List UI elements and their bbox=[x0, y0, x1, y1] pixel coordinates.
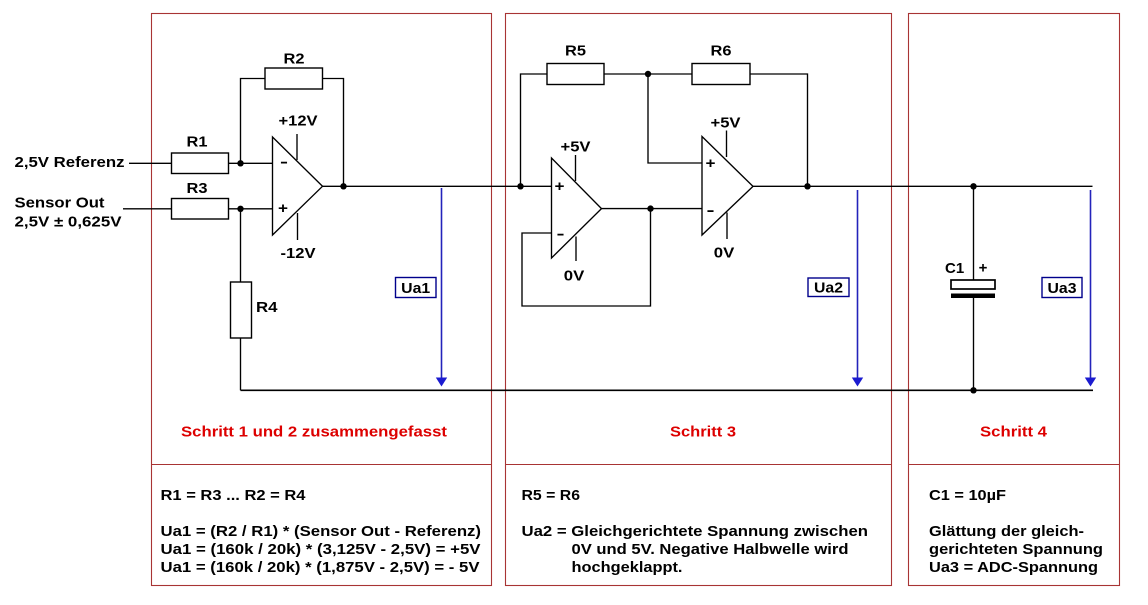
formula box 3 text bbox=[929, 487, 1103, 576]
frame box 3 (Schritt 4) bbox=[909, 14, 1120, 586]
wire R3 junction down to R4 bbox=[240, 209, 242, 282]
power +5V U3 bbox=[711, 115, 741, 158]
svg-text:R1: R1 bbox=[187, 134, 208, 151]
svg-text:R6: R6 bbox=[711, 43, 732, 60]
svg-text:+12V: +12V bbox=[279, 113, 318, 130]
node arrow Ua3 bbox=[1042, 190, 1096, 387]
svg-text:2,5V ± 0,625V: 2,5V ± 0,625V bbox=[15, 214, 122, 231]
wire R5 left lead bbox=[521, 74, 548, 186]
frame box 2 (Schritt 3) bbox=[506, 14, 892, 586]
wire input referenz to R1 bbox=[129, 162, 172, 164]
svg-text:Ua2 = Gleichgerichtete Spannun: Ua2 = Gleichgerichtete Spannung zwischen bbox=[522, 523, 869, 540]
svg-text:+5V: +5V bbox=[711, 115, 741, 132]
node junction R5 tap bbox=[517, 183, 523, 189]
node arrow Ua2 bbox=[808, 190, 863, 387]
wire U1 output to U2 input bbox=[323, 185, 552, 187]
resistor R5 bbox=[547, 43, 604, 85]
power 0V U3 bbox=[714, 213, 735, 262]
svg-text:R1 = R3 ... R2 = R4: R1 = R3 ... R2 = R4 bbox=[161, 487, 307, 504]
node junction R3/R4 bbox=[237, 206, 243, 212]
power -12V U1 bbox=[281, 213, 316, 262]
svg-text:R2: R2 bbox=[284, 51, 305, 68]
wire C1 top lead bbox=[973, 186, 975, 280]
formula box 2 text bbox=[522, 487, 869, 576]
power +5V U2 bbox=[561, 139, 591, 182]
resistor R4 bbox=[231, 282, 279, 338]
svg-text:-: - bbox=[557, 226, 565, 243]
svg-text:Ua1: Ua1 bbox=[401, 280, 430, 297]
node U3 output junction bbox=[804, 183, 810, 189]
wire R5 to R6 bbox=[604, 73, 692, 75]
node C1 top junction bbox=[970, 183, 976, 189]
wire R2 right down to output node bbox=[323, 79, 344, 187]
svg-text:hochgeklappt.: hochgeklappt. bbox=[572, 559, 683, 576]
svg-text:+: + bbox=[979, 260, 988, 277]
svg-text:R4: R4 bbox=[256, 299, 278, 316]
wire U2 feedback loop bbox=[522, 209, 651, 306]
svg-text:Sensor Out: Sensor Out bbox=[15, 195, 105, 212]
svg-text:+: + bbox=[555, 178, 565, 195]
svg-text:0V: 0V bbox=[714, 245, 735, 262]
wire ground rail bbox=[241, 389, 1094, 391]
wire R5/R6 junction down to U3 non-inverting input bbox=[648, 74, 702, 163]
svg-text:Ua1 = (R2 / R1) * (Sensor Out: Ua1 = (R2 / R1) * (Sensor Out - Referenz… bbox=[161, 523, 482, 540]
wire R1 to op-amp inverting input bbox=[229, 162, 273, 164]
svg-text:Glättung der gleich-: Glättung der gleich- bbox=[929, 523, 1084, 540]
node junction R5/R6 bbox=[645, 71, 651, 77]
svg-text:C1 = 10µF: C1 = 10µF bbox=[929, 487, 1006, 504]
svg-text:-: - bbox=[280, 154, 288, 171]
node C1 bottom junction bbox=[970, 387, 976, 393]
svg-text:R5: R5 bbox=[565, 43, 586, 60]
capacitor C1 bbox=[945, 260, 995, 299]
wire U3 output to C1 and Ua3 bbox=[753, 185, 1093, 187]
svg-text:0V und 5V. Negative Halbwelle: 0V und 5V. Negative Halbwelle wird bbox=[572, 541, 849, 558]
node junction R1/R2 bbox=[237, 160, 243, 166]
op-amp U2 bbox=[552, 158, 602, 258]
svg-text:C1: C1 bbox=[945, 260, 964, 277]
svg-text:Ua1 = (160k / 20k) * (1,875V -: Ua1 = (160k / 20k) * (1,875V - 2,5V) = -… bbox=[161, 559, 480, 576]
node label Sensor Out 2,5V ± 0,625V bbox=[15, 195, 122, 231]
op-amp U1 bbox=[273, 137, 323, 235]
svg-text:-12V: -12V bbox=[281, 245, 316, 262]
power +12V U1 bbox=[279, 113, 318, 161]
node U1 output junction bbox=[340, 183, 346, 189]
wire R6 right lead down to output bbox=[750, 74, 808, 186]
svg-text:0V: 0V bbox=[564, 268, 585, 285]
wire U2 output to U3 inverting input bbox=[602, 208, 703, 210]
wire feedback left (junction up to R2) bbox=[241, 79, 266, 164]
wire input sensor to R3 bbox=[123, 208, 172, 210]
svg-text:Ua3: Ua3 bbox=[1048, 280, 1077, 297]
node U2 output junction bbox=[647, 205, 653, 211]
svg-text:Schritt 4: Schritt 4 bbox=[980, 424, 1048, 441]
svg-text:Schritt 3: Schritt 3 bbox=[670, 424, 736, 441]
svg-text:Ua3 = ADC-Spannung: Ua3 = ADC-Spannung bbox=[929, 559, 1098, 576]
formula box 1 text bbox=[161, 487, 482, 576]
op-amp U3 bbox=[702, 137, 753, 236]
wire C1 bottom lead bbox=[973, 298, 975, 390]
wire R3 to op-amp non-inverting input bbox=[229, 208, 273, 210]
resistor R3 bbox=[172, 180, 229, 219]
svg-text:Ua1 = (160k / 20k) * (3,125V -: Ua1 = (160k / 20k) * (3,125V - 2,5V) = +… bbox=[161, 541, 481, 558]
resistor R6 bbox=[692, 43, 750, 85]
svg-text:+: + bbox=[706, 155, 716, 172]
resistor R2 bbox=[265, 51, 323, 90]
svg-text:Schritt 1 und 2 zusammengefass: Schritt 1 und 2 zusammengefasst bbox=[181, 424, 447, 441]
svg-text:R3: R3 bbox=[187, 180, 208, 197]
svg-text:+5V: +5V bbox=[561, 139, 591, 156]
node arrow Ua1 bbox=[396, 188, 448, 387]
resistor R1 bbox=[172, 134, 229, 174]
svg-text:2,5V Referenz: 2,5V Referenz bbox=[15, 154, 125, 171]
svg-text:Ua2: Ua2 bbox=[814, 279, 843, 296]
svg-text:-: - bbox=[707, 202, 715, 219]
svg-text:R5 = R6: R5 = R6 bbox=[522, 487, 581, 504]
wire R4 down to ground rail bbox=[240, 338, 242, 390]
svg-text:+: + bbox=[278, 200, 288, 217]
frame box 1 (Schritt 1 und 2) bbox=[152, 14, 492, 586]
power 0V U2 bbox=[564, 237, 585, 285]
svg-text:gerichteten Spannung: gerichteten Spannung bbox=[929, 541, 1103, 558]
